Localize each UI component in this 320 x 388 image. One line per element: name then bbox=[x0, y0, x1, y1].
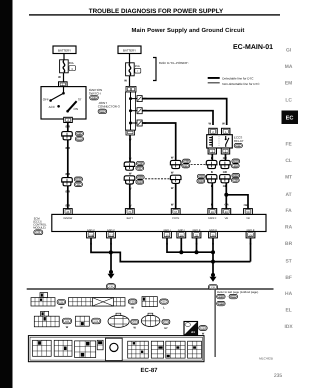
wire ignition switch to connector E101 bbox=[67, 123, 69, 132]
svg-text:Refer to “EL-POWER”.: Refer to “EL-POWER”. bbox=[159, 61, 190, 65]
svg-text:MA: MA bbox=[285, 64, 293, 70]
svg-text:F102: F102 bbox=[76, 178, 82, 181]
svg-text:RA: RA bbox=[285, 225, 293, 231]
sidebar tab EC (current section, highlighted) bbox=[282, 111, 299, 125]
svg-text:39: 39 bbox=[212, 234, 215, 237]
inline connector pair (CRTN 2) bbox=[170, 175, 181, 179]
junction node bbox=[195, 250, 199, 254]
joint connector-3 ref oval bbox=[98, 109, 107, 114]
bus internal wire bbox=[130, 92, 132, 130]
ECM connector ref oval bbox=[199, 326, 207, 331]
wire node to ECM VB pin (right) bbox=[226, 195, 248, 209]
wire battery B1 to fuse FL1 bbox=[63, 54, 65, 61]
ignition switch OFF contact bbox=[51, 93, 64, 100]
fusible link FL1 marker box bbox=[69, 66, 75, 71]
svg-text:BF: BF bbox=[285, 275, 292, 281]
connector face E38 body bbox=[31, 298, 55, 306]
connector face F101 bowtie bbox=[93, 298, 114, 306]
ECCS relay contact bbox=[226, 136, 229, 147]
ignition switch wiper stem bbox=[63, 87, 65, 93]
junction node bbox=[179, 250, 183, 254]
ECM top terminal CRTN bbox=[171, 209, 180, 215]
left page edge black band bbox=[0, 0, 13, 388]
inline connector pair (W feed 2) bbox=[124, 176, 135, 180]
ECCS relay box bbox=[207, 135, 233, 148]
svg-text:235: 235 bbox=[274, 373, 283, 379]
wire bus tap2 to ECCS relay left coil pin bbox=[142, 111, 213, 125]
wire connector to ECM BATT pin bbox=[129, 184, 131, 208]
ECCS relay bottom terminal (left) bbox=[208, 148, 216, 154]
bus tap 2 stub bbox=[131, 110, 138, 112]
svg-text:F102: F102 bbox=[219, 303, 225, 306]
ECCS relay coil bbox=[209, 136, 212, 147]
ground wire GND-E 2 trunk bbox=[212, 238, 214, 277]
svg-text:OR: OR bbox=[223, 171, 227, 174]
svg-text:IDX: IDX bbox=[285, 324, 294, 330]
wire connector to connector bbox=[67, 140, 69, 177]
svg-text:MODULE): MODULE) bbox=[33, 227, 45, 230]
svg-text:57: 57 bbox=[174, 211, 177, 214]
svg-text:W: W bbox=[209, 123, 212, 126]
svg-text:F101: F101 bbox=[77, 138, 83, 141]
dashed connector link bbox=[145, 178, 170, 180]
svg-text:VB: VB bbox=[225, 217, 229, 220]
svg-text:AT: AT bbox=[286, 192, 292, 198]
wire FL2 to joint connector, color W bbox=[129, 76, 131, 87]
pin block 5 bbox=[128, 341, 149, 358]
inline connector pair (coil row 2) bbox=[206, 175, 217, 179]
battery B2 (middle) bbox=[118, 46, 141, 54]
svg-text:OFF: OFF bbox=[43, 97, 49, 101]
junction node bbox=[211, 273, 215, 277]
svg-text:70: 70 bbox=[128, 211, 131, 214]
wire bus tap1 to ECCS relay right coil pin bbox=[142, 99, 227, 125]
svg-text:30A: 30A bbox=[69, 61, 74, 65]
svg-text:OR: OR bbox=[244, 204, 248, 207]
svg-text:10: 10 bbox=[166, 234, 169, 237]
bus junction node 3 bbox=[129, 122, 132, 125]
svg-text:W: W bbox=[129, 158, 132, 161]
pin block 4 bbox=[97, 340, 103, 350]
bus tap 1 stub bbox=[131, 98, 138, 100]
svg-text:W: W bbox=[171, 187, 174, 190]
connector ref ovals (left side) bbox=[197, 174, 205, 178]
connector ref ovals bbox=[232, 159, 240, 163]
svg-text:F101: F101 bbox=[130, 301, 136, 304]
svg-text:ACC: ACC bbox=[49, 105, 56, 109]
pin block 6 bbox=[151, 341, 163, 358]
ECM top terminal VB bbox=[222, 209, 231, 215]
wire coil branch to ECM SSOFF pin bbox=[211, 183, 213, 209]
svg-text:TROUBLE DIAGNOSIS FOR POWER SU: TROUBLE DIAGNOSIS FOR POWER SUPPLY bbox=[89, 8, 224, 15]
connector face E24 ref oval bbox=[162, 319, 170, 324]
svg-text:Detectable line for DTC: Detectable line for DTC bbox=[222, 77, 254, 81]
svg-text:RELAY: RELAY bbox=[234, 139, 244, 143]
ignition switch SW1 bbox=[41, 87, 86, 119]
svg-text:W: W bbox=[129, 173, 132, 176]
svg-text:106: 106 bbox=[248, 234, 253, 237]
connector face F26 body bbox=[76, 316, 90, 326]
EL-POWER refer bracket bbox=[153, 58, 156, 81]
svg-text:W: W bbox=[171, 203, 174, 206]
svg-text:MT: MT bbox=[285, 175, 292, 181]
ECM top terminal VB bbox=[244, 209, 253, 215]
svg-text:112: 112 bbox=[109, 234, 114, 237]
svg-text:CRTN: CRTN bbox=[172, 217, 179, 220]
connector face M66 tab bbox=[41, 311, 49, 316]
bus tap 1 terminal box bbox=[137, 96, 142, 102]
junction node bbox=[211, 260, 215, 264]
svg-text:32: 32 bbox=[195, 234, 198, 237]
wire battery B2 to fuse FL2 bbox=[129, 54, 131, 64]
junction node bbox=[109, 250, 113, 254]
ECM top terminal SSOFF bbox=[208, 209, 217, 215]
ECCS relay top terminal (right) bbox=[222, 128, 230, 134]
svg-text:FE: FE bbox=[285, 142, 292, 148]
svg-text:FA: FA bbox=[285, 208, 292, 214]
connector ref ovals bbox=[232, 173, 240, 177]
pin block 8 bbox=[188, 341, 202, 358]
connector ref ovals E101 F101 bbox=[75, 131, 83, 135]
inline connector pair (relay contact) bbox=[220, 160, 231, 164]
ground wire GND-E 1 bbox=[196, 238, 198, 252]
ECM top terminal IGNSW bbox=[63, 209, 72, 215]
joint connector-3 top terminal bbox=[126, 86, 136, 92]
ground symbol left bbox=[108, 274, 115, 279]
inline connector pair (CRTN) bbox=[170, 160, 181, 164]
ground symbol right bbox=[210, 277, 217, 282]
bus tap 3 terminal box bbox=[137, 120, 142, 126]
inline connector pair F102/M4 bbox=[62, 178, 73, 182]
ignition switch bottom terminal bbox=[64, 117, 73, 122]
connector face M4 body bbox=[142, 297, 157, 307]
fusible link FL2 25A bbox=[126, 63, 135, 76]
ECM ref oval bbox=[34, 230, 43, 235]
connector face M66 body bbox=[34, 316, 59, 327]
connector ref ovals bbox=[182, 159, 190, 163]
wire contact branch down to node bbox=[225, 183, 227, 209]
svg-text:SWITCH: SWITCH bbox=[89, 91, 101, 95]
callout separator bbox=[215, 289, 216, 357]
pin block 3 bbox=[75, 341, 96, 358]
connector face M66 ref oval bbox=[62, 318, 71, 324]
svg-text:BR: BR bbox=[285, 241, 293, 247]
svg-text:CL: CL bbox=[285, 158, 292, 164]
ground cross link bbox=[111, 252, 251, 261]
bus tap 2 terminal box bbox=[137, 108, 142, 114]
svg-text:B/R: B/R bbox=[65, 204, 70, 207]
ECM box bbox=[52, 214, 266, 231]
connector face M4 ref oval bbox=[160, 299, 169, 304]
bus tap 3 stub bbox=[131, 122, 138, 124]
svg-text:ST: ST bbox=[78, 97, 82, 101]
svg-text:Non-detectable line for DTC: Non-detectable line for DTC bbox=[222, 82, 260, 86]
svg-text:LC: LC bbox=[285, 98, 292, 104]
inline connector pair (relay coil) bbox=[206, 160, 217, 164]
foldout ref oval bbox=[217, 301, 225, 305]
ground wire GND-E 3 (right) bbox=[250, 238, 252, 262]
legend: detectable line sample bbox=[208, 77, 220, 79]
connector face E38 ref oval bbox=[57, 299, 66, 304]
connector face F101 ref oval bbox=[128, 299, 137, 304]
wire relay coil to connector bbox=[211, 154, 213, 160]
svg-text:W: W bbox=[222, 123, 225, 126]
svg-text:B: B bbox=[211, 171, 213, 174]
ignition switch ACC contact bbox=[57, 105, 60, 108]
svg-text:MEC492B: MEC492B bbox=[259, 357, 273, 361]
svg-text:Refer to last page (Foldout pa: Refer to last page (Foldout page). bbox=[217, 290, 259, 294]
svg-text:OR: OR bbox=[225, 203, 229, 206]
svg-text:IGNSW: IGNSW bbox=[63, 217, 72, 220]
wire bus tap3 to CRTN branch bbox=[142, 123, 176, 160]
dashed connector link to relay branch bbox=[191, 163, 206, 165]
ground ref oval left bbox=[106, 284, 115, 289]
fusible link FL2 marker box bbox=[135, 68, 141, 73]
ignition switch connector ref oval bbox=[90, 95, 99, 100]
svg-text:W: W bbox=[171, 171, 174, 174]
junction node VB bbox=[224, 193, 228, 197]
ignition switch top terminal bbox=[59, 82, 68, 87]
connector face E38 tab bbox=[40, 293, 48, 298]
ECCS relay dividing dash bbox=[218, 136, 220, 147]
junction node left trunk bbox=[109, 270, 113, 274]
connector ref ovals bbox=[136, 175, 144, 179]
bus junction node 1 bbox=[129, 97, 132, 100]
svg-text:25A: 25A bbox=[135, 64, 140, 68]
svg-text:GY: GY bbox=[164, 327, 168, 330]
svg-text:49: 49 bbox=[225, 211, 228, 214]
svg-text:-: - bbox=[227, 295, 228, 299]
ground wire GND-C 2 bbox=[110, 238, 112, 273]
title underline rule bbox=[29, 14, 280, 15]
ECCS relay ref oval bbox=[234, 143, 242, 147]
svg-text:W: W bbox=[129, 205, 132, 208]
svg-text:ST: ST bbox=[285, 258, 291, 264]
inline connector pair E101/F101 bbox=[62, 132, 73, 136]
svg-text:Main Power Supply and Ground C: Main Power Supply and Ground Circuit bbox=[132, 27, 245, 34]
svg-text:HA: HA bbox=[285, 291, 293, 297]
ground wire GND-I 1 bbox=[167, 238, 213, 252]
svg-text:BATTERY: BATTERY bbox=[123, 48, 136, 52]
svg-text:108: 108 bbox=[89, 234, 94, 237]
pin block 2 bbox=[54, 340, 72, 356]
svg-text:ON: ON bbox=[74, 107, 79, 111]
inline connector pair (contact row 2) bbox=[220, 175, 231, 179]
wire connector to ECM IGNSW pin bbox=[67, 186, 69, 209]
ECM pin layout box bbox=[28, 336, 204, 362]
bolt hole plate bbox=[106, 338, 123, 360]
svg-text:F101: F101 bbox=[231, 296, 237, 299]
svg-text:EL: EL bbox=[285, 308, 291, 314]
ECCS relay bottom terminal (right) bbox=[221, 148, 229, 154]
legend: non-detectable line sample bbox=[208, 81, 220, 84]
connector face F101 body bbox=[69, 298, 126, 306]
connector face E24 (oval housing) bbox=[148, 313, 153, 316]
svg-text:EC: EC bbox=[286, 116, 294, 122]
wire relay contact to connector bbox=[225, 154, 227, 160]
ignition switch ON bar bbox=[68, 101, 77, 111]
connector face E22 ref oval bbox=[131, 319, 139, 324]
svg-text:BATT: BATT bbox=[127, 217, 134, 220]
ECM connector view (black corner) bbox=[184, 322, 198, 336]
joint connector-3 bus body bbox=[126, 92, 136, 130]
battery B1 (left) bbox=[53, 46, 76, 54]
svg-text:19: 19 bbox=[211, 211, 214, 214]
ECCS relay top terminal (left) bbox=[209, 128, 217, 134]
svg-text:EM: EM bbox=[285, 81, 292, 87]
svg-text:W: W bbox=[171, 157, 174, 160]
svg-text:W: W bbox=[58, 75, 61, 79]
pin block 7 bbox=[166, 341, 185, 358]
joint connector-3 bottom terminal bbox=[126, 130, 135, 135]
svg-text:GI: GI bbox=[286, 47, 292, 53]
svg-text:B: B bbox=[211, 203, 213, 206]
svg-text:B/R: B/R bbox=[65, 173, 70, 176]
ground wire GND-I 2 bbox=[180, 238, 182, 252]
pin block 1 bbox=[33, 340, 52, 356]
svg-text:19: 19 bbox=[180, 234, 183, 237]
svg-text:A1: A1 bbox=[191, 330, 195, 334]
connector face F26 ref oval bbox=[92, 318, 101, 324]
ECM top terminal BATT bbox=[125, 209, 134, 215]
svg-text:EC-87: EC-87 bbox=[140, 367, 158, 374]
wire bus bottom to connector bbox=[129, 135, 131, 162]
svg-text:59: 59 bbox=[247, 211, 250, 214]
svg-text:SSOFF: SSOFF bbox=[208, 217, 217, 220]
inline connector pair (W feed) bbox=[124, 162, 135, 166]
ground ref oval right bbox=[208, 284, 217, 289]
fusible link FL1 30A bbox=[60, 60, 69, 73]
svg-text:BATTERY: BATTERY bbox=[58, 48, 71, 52]
section divider rule bbox=[27, 288, 274, 289]
svg-text:EC-MAIN-01: EC-MAIN-01 bbox=[233, 44, 273, 51]
connector face E22 (oval housing) bbox=[116, 313, 121, 316]
svg-text:CONNECTOR-3: CONNECTOR-3 bbox=[98, 105, 120, 109]
svg-text:VB: VB bbox=[246, 217, 250, 220]
wire connector to ECM CRTN pin bbox=[175, 184, 177, 209]
svg-text:45: 45 bbox=[66, 211, 69, 214]
svg-text:W: W bbox=[124, 78, 127, 82]
foldout ref oval pair bbox=[217, 294, 225, 298]
bus junction node 2 bbox=[129, 109, 132, 112]
connector ref ovals bbox=[74, 177, 82, 181]
ground wire GND-C 1 bbox=[91, 238, 111, 253]
connector ref ovals bbox=[136, 161, 144, 165]
junction node bbox=[211, 250, 215, 254]
wire FL1 to ignition switch, color W bbox=[63, 73, 65, 82]
